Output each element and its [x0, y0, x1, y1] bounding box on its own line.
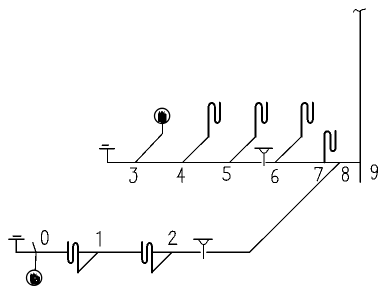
label 7 [315, 168, 322, 181]
floor drain FD0 (hatched circle) [26, 270, 41, 285]
wire: lower branch pipe segment a [16, 251, 67, 253]
label 8 [342, 167, 348, 181]
wire: branch 6 diagonal to trap P3 [275, 137, 302, 163]
trap P4 (S-trap on pipe) [324, 131, 335, 162]
vent stack riser [359, 11, 361, 182]
wire: branch 5 diagonal [230, 137, 256, 163]
label 4 [177, 168, 185, 182]
wire: upper branch pipe (right of funnel F1) [266, 161, 360, 163]
trap P2 (S-trap) [256, 103, 267, 137]
vent cap (wavy) [353, 9, 365, 12]
trap P1 (S-trap) [209, 103, 220, 137]
label 2 [169, 231, 177, 244]
wire: trap T2 outlet diagonal [152, 252, 172, 272]
label 3 [130, 168, 137, 183]
wire: branch 4 diagonal [183, 137, 209, 163]
funnel drain F2 on lower pipe [194, 239, 212, 258]
wire: lower branch pipe segment b [79, 251, 141, 253]
wire: node 0 drop to floor drain [33, 243, 36, 270]
trap T1 (S-trap on lower pipe) [68, 242, 78, 272]
label 0 [42, 231, 49, 245]
funnel drain F1 on pipe [255, 148, 273, 165]
trap P3 (S-trap) [302, 103, 313, 137]
label 5 [223, 167, 230, 180]
cleanout cap L (lower pipe end) [9, 236, 24, 252]
floor drain FD3 (hatched circle) [155, 108, 170, 123]
label 1 [97, 231, 100, 246]
label 6 [272, 169, 278, 182]
cleanout cap U (upper pipe end) [100, 145, 115, 162]
wire: riser connection diagonal (upper to lower pipe) [250, 162, 340, 252]
trap T2 (S-trap on lower pipe) [142, 242, 152, 272]
wire: trap T1 outlet diagonal [78, 252, 98, 272]
wire: upper branch pipe (left of funnel F1) [108, 161, 262, 163]
label 9 [371, 165, 377, 179]
wire: lower branch pipe segment d [207, 251, 250, 253]
wire: branch 3 riser to floor drain [135, 125, 162, 163]
wire: lower branch pipe segment c [153, 251, 200, 253]
